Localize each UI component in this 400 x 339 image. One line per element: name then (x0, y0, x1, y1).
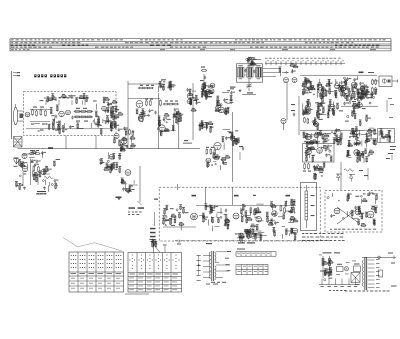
ground G4 (44, 187, 46, 188)
label stage L7 (234, 195, 239, 197)
trimmer caps cluster (159, 83, 161, 87)
switch row upper marks (265, 57, 267, 60)
small marks x185 y140 (184, 140, 188, 141)
label under left section (38, 191, 39, 192)
tube V3 mixer (66, 110, 71, 115)
resistor bank R4-R7 (75, 111, 80, 113)
arrow tap mark (198, 264, 200, 266)
wire tuner drop 2 (95, 136, 97, 149)
tube socket table frame (69, 252, 124, 292)
PSU bottom text (329, 290, 331, 291)
cluster stage C (218, 107, 224, 113)
wire vertical x128 (127, 81, 129, 148)
mid cluster under V4 (149, 109, 151, 111)
resistor R32 R33 (33, 167, 35, 171)
cluster R-row2-c (337, 105, 339, 109)
voltage table pin diagrams and rows (132, 255, 133, 256)
schematic title HOBA BECHA (34, 74, 36, 77)
component above right table (152, 241, 156, 243)
capacitor C12 (154, 111, 156, 113)
bottom right text row (345, 291, 347, 292)
cluster above transformer (239, 233, 244, 238)
tube V5 (138, 116, 143, 121)
ground G3 (24, 187, 26, 188)
cluster R-row1-a (305, 89, 309, 93)
marks near Q1 (291, 104, 295, 105)
cluster B bottom marks (330, 229, 332, 230)
marks between transformers (244, 69, 246, 71)
cluster stage D (202, 123, 207, 128)
cluster B mid (352, 218, 359, 220)
ratio detector box (379, 76, 392, 86)
cluster stage A (187, 99, 191, 103)
cluster in sound box (308, 148, 311, 149)
lower-left tube pair (114, 133, 119, 138)
wire AF inner bus (196, 205, 296, 207)
cluster mid-left A (109, 154, 114, 159)
wire vertical x232 (232, 112, 234, 182)
tube V18 (317, 148, 323, 154)
transformer bottom line (211, 282, 215, 283)
wire tuner output drop (65, 136, 67, 149)
tuner interior extra mid (54, 118, 56, 123)
junction on bus (48, 147, 53, 149)
cluster mid AGC (229, 132, 232, 133)
wire tuner internal bus (26, 128, 110, 130)
transistor Q1 (281, 118, 286, 123)
transformer label (206, 243, 212, 244)
fuse column F2 (329, 256, 331, 269)
discriminator box (378, 129, 395, 143)
wire vertical x158 (158, 93, 160, 149)
T5 tap labels (376, 258, 380, 261)
wire module taps right (263, 68, 280, 70)
wire into box A (177, 184, 179, 190)
cluster AF input (176, 209, 178, 211)
PSU label 220v (323, 252, 332, 253)
label right of L5 (368, 72, 374, 73)
transistor Q2 (336, 173, 342, 175)
wire x287 down (286, 83, 288, 121)
tap labels left (197, 254, 201, 257)
cluster below box bottom (256, 233, 260, 234)
left column components (110, 124, 115, 129)
tube V9 (284, 78, 289, 83)
cluster R-row3-a (308, 136, 313, 138)
tube V15 (305, 134, 311, 140)
tap labels right (227, 251, 232, 252)
tube V17 (306, 149, 312, 155)
dark dashes (116, 197, 122, 199)
sound IF box (303, 144, 335, 163)
cluster mid-right small (317, 117, 319, 119)
resistor group R1-R3 (32, 110, 34, 115)
cluster mid-left B (131, 185, 133, 187)
cluster right mid fill (357, 103, 362, 108)
wire box to edge (392, 80, 398, 82)
cluster R-row2-b (318, 114, 320, 117)
resistor R14 (160, 101, 162, 106)
tube V16 (314, 133, 319, 138)
tube V1 input (25, 112, 30, 117)
speaker terminal dashes (129, 207, 136, 209)
resistor trio above (139, 87, 143, 89)
cluster AF mid (203, 218, 205, 222)
label L5 (359, 72, 364, 74)
cluster mid lower (206, 158, 211, 163)
cluster stage B (205, 90, 210, 95)
cluster right col fill (344, 81, 345, 82)
PSU bottom bus (319, 284, 360, 286)
cluster R-row3-b (317, 136, 319, 143)
label under module (247, 92, 253, 93)
right edge sparse marks (388, 97, 392, 100)
PSU extra parts (325, 270, 327, 274)
marks right of Q3 (359, 170, 363, 171)
tube V21 (125, 170, 131, 176)
small parts x240 (239, 146, 243, 147)
tuner interior extra bottom (62, 125, 64, 127)
antenna terminal marks (17, 72, 21, 73)
cluster left-mid overlay (43, 180, 45, 182)
cap stacks AF (209, 205, 211, 207)
resistor R30 R31 (30, 153, 34, 155)
sheet number text (391, 286, 397, 287)
right edge marks (388, 153, 393, 154)
AF amplifier dashed enclosure (159, 187, 320, 241)
PSU bottom connections (321, 279, 323, 285)
wire main bus y149 (18, 148, 201, 150)
power transformer T5 core (364, 258, 366, 291)
label KPE (230, 87, 236, 88)
IF filter module box (237, 64, 263, 82)
cluster R-row1-c (338, 86, 343, 88)
line under tables (125, 293, 149, 295)
tube V8 (210, 83, 215, 88)
leader line to socket table (63, 238, 78, 247)
output transformer box (301, 183, 317, 231)
component right of T5 (379, 270, 383, 277)
small parts mid right (352, 101, 356, 102)
label right edge (390, 146, 396, 147)
text rows below box B (302, 233, 304, 234)
PSU small labels (336, 273, 340, 276)
T5 primary winding (362, 260, 363, 287)
marks above tables (163, 245, 167, 246)
wire horizontal y84 (128, 83, 165, 85)
leader tick right table (153, 240, 155, 253)
cluster right of V4 (176, 119, 178, 125)
wire antenna to tuner (15, 104, 17, 107)
capacitor C4 (55, 115, 57, 117)
arrow mark 2 (138, 201, 142, 205)
arrow mark (56, 182, 58, 186)
small label mid (253, 195, 256, 196)
ground G2 (239, 89, 241, 90)
wire vertical x193 (192, 83, 194, 140)
pilot lamp (344, 267, 348, 271)
choke Dr1 (337, 267, 344, 272)
wire drops left section (22, 172, 24, 187)
tube V20 (41, 170, 46, 175)
power transformer T4 core and windings (211, 251, 213, 281)
antenna fan symbol (14, 159, 20, 164)
cluster right of module (279, 68, 281, 72)
wire y143 stub (183, 142, 192, 144)
wire bus y75 (300, 74, 377, 76)
cluster R-row3-c (337, 137, 342, 142)
cluster AF drive (256, 216, 262, 222)
rectifier box (354, 266, 361, 272)
resistor col x305 mid (304, 118, 306, 122)
small connection table 1 (236, 251, 276, 253)
tuner unit dashed enclosure (24, 92, 117, 136)
crossed wires (337, 207, 360, 224)
fuse column F1 (322, 256, 324, 269)
wire top of PSU (362, 256, 396, 258)
cluster R-row3-d (356, 141, 360, 145)
wire bus y130 (300, 129, 376, 131)
coil L10 squiggle (44, 176, 53, 178)
cluster R-row1-d dense (360, 87, 365, 92)
resistor R20 R21 (129, 130, 131, 134)
band switch contact row (44, 98, 46, 99)
tube V10 (292, 78, 297, 83)
cluster B top (368, 193, 370, 195)
marks in transformer box (311, 195, 315, 196)
cluster under R25 (205, 85, 208, 86)
tube V23 AF (233, 213, 239, 219)
tube V13 (330, 105, 335, 110)
cluster right row4 (354, 150, 360, 156)
phase splitter dashed enclosure (325, 190, 382, 232)
cluster R-row3-e (366, 138, 368, 142)
cluster R-row2-a (305, 105, 309, 109)
wave band switch contact row (265, 62, 345, 64)
IF transformers T1 T2 T3 (238, 68, 244, 78)
transistor Q3 (349, 174, 355, 176)
resistor column x372 (372, 80, 374, 84)
wire vertical x178 (178, 110, 180, 149)
transistor Q4 (22, 166, 27, 171)
wire x341 down (340, 162, 342, 190)
caps under row1 (362, 93, 364, 95)
T5 secondary taps (368, 259, 375, 261)
cluster under det box (371, 93, 372, 94)
resistor col below box (304, 164, 306, 168)
tube V6 det (159, 125, 165, 131)
left section labels (37, 191, 46, 192)
ferrite antenna coil (14, 107, 18, 125)
title block text rows (11, 38, 14, 41)
speaker wires left (150, 228, 156, 230)
coil L8 squiggle (344, 169, 354, 171)
tube V2 oscillator (59, 111, 65, 117)
tube socket table pins and values (71, 255, 72, 256)
title block table frame (9, 39, 11, 51)
resistor R12 R13 (146, 101, 148, 105)
cluster on bus x100-135 (130, 146, 135, 148)
tube V7 (187, 93, 193, 99)
chassis ground block (14, 137, 23, 148)
small connection table 2 (236, 264, 268, 266)
wire x140 down (139, 166, 141, 202)
tube V25 (355, 209, 361, 215)
resistor row R15-R17 (164, 103, 168, 105)
tube V19 (22, 153, 27, 158)
cluster R-row1-b (318, 88, 324, 94)
switch marks below fuses (320, 271, 324, 272)
wire module down (248, 79, 250, 91)
tick below box A (178, 240, 180, 244)
label stage L6 (192, 195, 197, 197)
transformer taps (203, 255, 211, 257)
wire into box (373, 80, 379, 82)
tuner interior extra top (68, 95, 70, 96)
voltage divider ladder (305, 191, 308, 220)
selenium rectifier bridge (351, 273, 360, 283)
wire y106 right (341, 105, 378, 107)
resistor network below (206, 150, 208, 154)
wire x299 down (298, 96, 300, 135)
marks top right PSU (388, 253, 393, 254)
dark bar above transformer (238, 242, 245, 243)
tube V4 IF amp (136, 101, 143, 108)
tube V11 AGC (214, 142, 221, 149)
cluster AF out (292, 228, 298, 234)
label stage L8 (286, 195, 291, 197)
wire left vertical rail (10, 71, 12, 139)
chassis boundary line (175, 240, 330, 242)
ground G5 (118, 197, 120, 198)
tube V26 (367, 211, 374, 218)
cluster detector (173, 114, 178, 116)
edge connector mark (154, 199, 158, 200)
cluster lower left (130, 138, 132, 143)
coil L1 marks (33, 107, 37, 108)
wire y98 (128, 98, 160, 100)
tuner right section (102, 106, 107, 111)
trimmer C20 (247, 84, 252, 86)
cluster below sound box (317, 165, 319, 167)
resistor R25 column (202, 70, 206, 72)
tube V12 pair (335, 84, 340, 89)
tube V22 AF (191, 213, 198, 220)
tube V24 (334, 208, 340, 214)
trimmer stack above module (254, 58, 255, 59)
tube V14 (314, 122, 319, 127)
voltage table frame (128, 253, 182, 293)
